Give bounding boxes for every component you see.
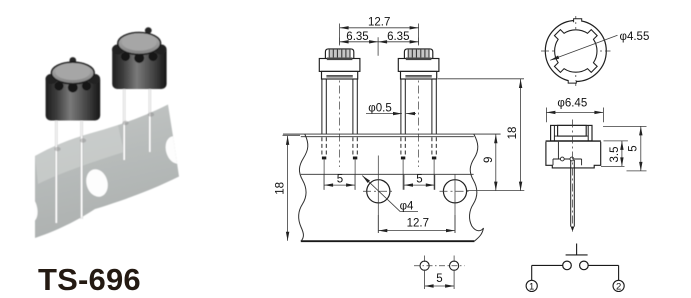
svg-text:5: 5: [337, 174, 343, 186]
photo: carrier tape strip with two switches: [15, 27, 188, 238]
tape sprocket holes: [15, 134, 188, 225]
switch body photo S2: [145, 27, 152, 33]
top view bottom tab: [568, 80, 576, 83]
dimension phi 4.55 leader: [550, 35, 617, 60]
svg-text:3.5: 3.5: [609, 147, 621, 163]
dimension 3.5: [604, 140, 628, 142]
dimension 12.7 bottom (hole pitch): [377, 215, 379, 233]
svg-text:TS-696: TS-696: [38, 262, 141, 297]
pin 1 label: [526, 280, 537, 291]
switch leads (photo): [55, 119, 58, 223]
tape right wavy edge: [470, 134, 484, 241]
top view button circle with keys: [554, 30, 597, 73]
svg-text:φ6.45: φ6.45: [557, 97, 587, 109]
svg-text:2: 2: [616, 281, 621, 292]
dimension 5 footprint: [424, 270, 426, 290]
top view centerlines: [541, 50, 611, 52]
top view outer circle: [545, 21, 606, 82]
side view center line: [572, 120, 574, 233]
svg-text:5: 5: [416, 174, 422, 186]
footprint centerlines: [414, 265, 465, 267]
side view lead: [570, 160, 572, 227]
switch body photo S1: [69, 57, 76, 64]
switch SW-A front view: [319, 38, 360, 190]
svg-text:12.7: 12.7: [368, 17, 390, 29]
svg-text:6.35: 6.35: [387, 31, 409, 43]
svg-text:18: 18: [507, 127, 519, 140]
svg-text:φ0.5: φ0.5: [368, 103, 391, 115]
tape hole H2: [443, 180, 466, 203]
dimension 5 lead-span right: [403, 175, 405, 190]
svg-text:9: 9: [483, 157, 495, 163]
side view knob/cap: [551, 125, 592, 140]
tape left wavy edge: [299, 134, 308, 241]
side view body: [546, 142, 601, 168]
dimension 6.35 right: [378, 41, 419, 43]
tape hole H1 (phi 4): [367, 180, 390, 203]
hole H2 centerlines: [440, 190, 471, 192]
top view top tab: [574, 19, 582, 22]
hole H1 centerlines: [363, 190, 394, 192]
tape edge top lines: [283, 133, 501, 135]
svg-text:18: 18: [275, 182, 287, 195]
svg-text:5: 5: [627, 145, 639, 151]
svg-text:φ4: φ4: [400, 201, 414, 213]
schematic contact B: [580, 261, 589, 270]
switch SW-B front view: [398, 38, 439, 190]
svg-text:6.35: 6.35: [346, 31, 368, 43]
pin 2 label: [613, 280, 624, 291]
wire pin2: [588, 264, 618, 266]
dimension 9: [467, 190, 525, 192]
svg-text:12.7: 12.7: [407, 218, 429, 230]
tape middle line: [301, 173, 474, 175]
schematic contact A: [563, 261, 572, 270]
dimension phi 4 hole leader: [362, 176, 400, 212]
dimension 18 left (tape width): [283, 134, 301, 136]
schematic actuator: [566, 254, 588, 256]
dimension 18 right (lead length): [438, 78, 524, 80]
svg-text:1: 1: [529, 281, 534, 292]
side view flange: [546, 140, 601, 142]
tape bottom edge: [301, 240, 475, 242]
footprint pad 1: [420, 261, 429, 270]
dimension 5 lead-span left: [323, 175, 325, 190]
svg-text:φ4.55: φ4.55: [620, 31, 650, 43]
dimension 12.7 top: [339, 24, 341, 45]
svg-text:5: 5: [436, 273, 442, 285]
wire pin1: [532, 264, 563, 266]
dimension 6.35 left: [377, 37, 379, 56]
footprint pad 2: [450, 261, 459, 270]
dimension 5 side: [603, 125, 647, 127]
